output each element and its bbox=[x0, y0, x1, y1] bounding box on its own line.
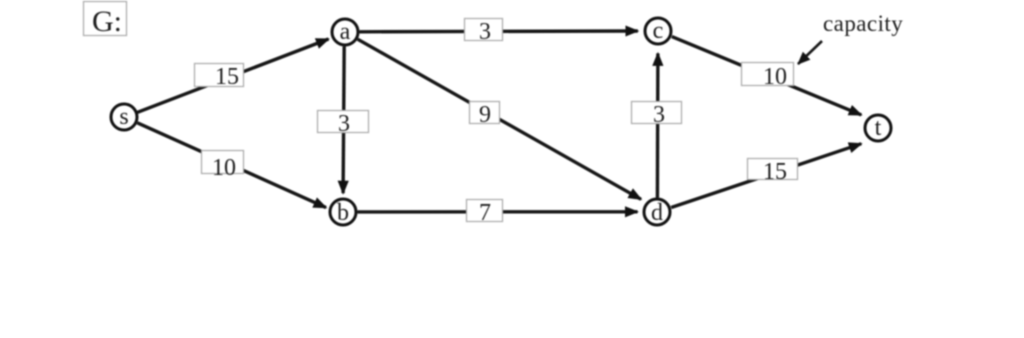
capacity label box 15 on edge d-t bbox=[748, 159, 798, 180]
wire edge a to c bbox=[360, 29, 638, 33]
svg-text:9: 9 bbox=[479, 102, 491, 128]
svg-text:15: 15 bbox=[215, 64, 239, 90]
node a bbox=[332, 19, 358, 45]
svg-text:G:: G: bbox=[92, 5, 122, 38]
capacity annotation arrow bbox=[798, 41, 822, 64]
svg-text:7: 7 bbox=[479, 200, 491, 226]
capacity label box 3 on edge a-b bbox=[318, 111, 369, 133]
label box G bbox=[84, 2, 127, 36]
wire edge s to b bbox=[137, 123, 326, 208]
svg-text:3: 3 bbox=[338, 111, 350, 137]
wire edge d to t bbox=[671, 144, 861, 208]
node s bbox=[111, 104, 137, 130]
svg-text:d: d bbox=[651, 200, 663, 226]
svg-text:15: 15 bbox=[763, 159, 787, 185]
svg-text:t: t bbox=[875, 115, 882, 141]
capacity label box 9 on edge a-d bbox=[470, 102, 500, 124]
capacity label box 15 on edge s-a bbox=[195, 64, 244, 87]
svg-text:10: 10 bbox=[212, 155, 236, 181]
capacity label box 10 on edge c-t bbox=[742, 63, 794, 86]
wire edge b to d bbox=[358, 210, 638, 213]
svg-text:a: a bbox=[340, 19, 351, 45]
svg-text:3: 3 bbox=[653, 102, 665, 128]
wire edge c to t bbox=[672, 37, 862, 115]
capacity label box 7 on edge b-d bbox=[467, 200, 503, 222]
node b bbox=[330, 199, 356, 225]
wire edge d to c bbox=[656, 53, 660, 197]
svg-text:s: s bbox=[119, 104, 128, 130]
capacity label box 3 on edge a-c bbox=[465, 19, 503, 41]
node c bbox=[645, 18, 671, 44]
wire edge a to b bbox=[343, 47, 344, 194]
svg-text:b: b bbox=[337, 200, 349, 226]
svg-text:c: c bbox=[653, 18, 664, 44]
node d bbox=[644, 199, 670, 225]
wire edge a to d bbox=[358, 39, 641, 199]
svg-text:capacity: capacity bbox=[823, 11, 903, 36]
capacity label box 3 on edge d-c bbox=[632, 102, 682, 124]
node t bbox=[865, 115, 891, 141]
wire edge s to a bbox=[138, 39, 329, 112]
svg-text:10: 10 bbox=[763, 64, 787, 90]
svg-text:3: 3 bbox=[479, 19, 491, 45]
capacity label box 10 on edge s-b bbox=[202, 151, 244, 174]
